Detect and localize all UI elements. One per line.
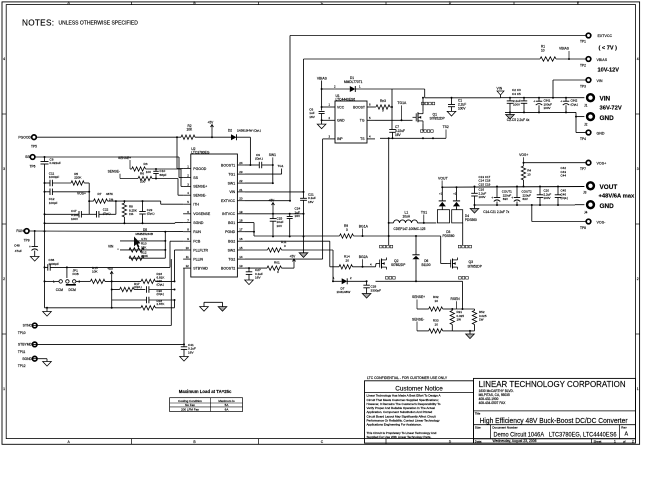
- svg-text:BG1A: BG1A: [359, 224, 369, 228]
- svg-text:487K: 487K: [106, 192, 114, 196]
- svg-text:16V: 16V: [308, 200, 314, 204]
- svg-text:1: 1: [614, 439, 616, 443]
- svg-text:23: 23: [239, 170, 243, 174]
- svg-text:2: 2: [3, 277, 5, 281]
- svg-text:VOUT: VOUT: [600, 184, 618, 191]
- svg-text:VOS+: VOS+: [77, 191, 86, 195]
- svg-text:16V: 16V: [309, 115, 315, 119]
- svg-text:TG: TG: [360, 119, 365, 123]
- svg-text:+5V: +5V: [107, 267, 114, 271]
- svg-text:10: 10: [527, 172, 531, 176]
- svg-text:TP9: TP9: [24, 238, 30, 242]
- svg-text:16V: 16V: [255, 276, 261, 280]
- svg-text:C15 C19: C15 C19: [479, 183, 491, 187]
- svg-text:3300pF: 3300pF: [371, 288, 382, 292]
- svg-text:EXTVCC: EXTVCC: [598, 34, 613, 38]
- svg-text:(Opt.): (Opt.): [147, 212, 155, 216]
- svg-text:100: 100: [146, 170, 151, 174]
- svg-text:Supplied For Use With Linear T: Supplied For Use With Linear Technology …: [367, 435, 432, 439]
- svg-text:No Fan: No Fan: [185, 403, 195, 407]
- svg-text:SS: SS: [25, 155, 30, 159]
- svg-text:1000pF: 1000pF: [49, 175, 60, 179]
- svg-text:Rn3: Rn3: [380, 99, 386, 103]
- svg-text:PGOOD: PGOOD: [18, 135, 31, 139]
- svg-text:1000pF: 1000pF: [49, 262, 60, 266]
- svg-text:SW2: SW2: [228, 248, 236, 252]
- svg-text:15: 15: [239, 246, 243, 250]
- svg-text:12: 12: [186, 264, 190, 268]
- svg-text:100V: 100V: [479, 195, 486, 199]
- svg-text:SENSE-: SENSE-: [193, 194, 207, 198]
- svg-text:20: 20: [239, 197, 243, 201]
- svg-text:TP11: TP11: [18, 350, 26, 354]
- svg-text:VIN: VIN: [229, 190, 235, 194]
- svg-text:+: +: [491, 196, 493, 200]
- svg-text:+48V/6A max: +48V/6A max: [599, 193, 635, 199]
- svg-text:GND: GND: [337, 119, 345, 123]
- svg-text:0: 0: [277, 270, 279, 274]
- svg-text:SYNC: SYNC: [23, 324, 33, 328]
- svg-text:BG1: BG1: [228, 221, 235, 225]
- svg-text:3: 3: [637, 167, 639, 171]
- svg-text:(Opt.): (Opt.): [561, 196, 569, 200]
- svg-text:PDS560: PDS560: [443, 234, 455, 238]
- svg-text:VOS+: VOS+: [519, 153, 528, 157]
- svg-text:VOUT: VOUT: [438, 176, 449, 180]
- svg-text:B1100: B1100: [422, 263, 431, 267]
- svg-text:VCC: VCC: [337, 105, 345, 109]
- svg-text:5A: 5A: [225, 403, 229, 407]
- svg-text:SS: SS: [193, 176, 198, 180]
- svg-text:63V: 63V: [523, 197, 528, 201]
- svg-text:J1: J1: [584, 104, 588, 108]
- svg-text:MMDL770T1: MMDL770T1: [344, 80, 363, 84]
- svg-text:10: 10: [541, 49, 545, 53]
- svg-text:D2: D2: [228, 129, 232, 133]
- svg-text:100V: 100V: [544, 106, 551, 110]
- svg-text:1N4148W: 1N4148W: [337, 290, 351, 294]
- svg-text:VBIAS: VBIAS: [559, 47, 570, 51]
- svg-text:0: 0: [346, 228, 348, 232]
- svg-text:TS: TS: [360, 137, 365, 141]
- svg-text:STBYMD: STBYMD: [193, 266, 208, 270]
- svg-text:36V-72V: 36V-72V: [600, 106, 622, 112]
- svg-text:16V: 16V: [188, 350, 194, 354]
- svg-text:10: 10: [186, 246, 190, 250]
- svg-text:4: 4: [3, 57, 5, 61]
- svg-text:200 LFM Fan: 200 LFM Fan: [181, 408, 199, 412]
- svg-text:Si7852DP: Si7852DP: [468, 264, 482, 268]
- svg-text:of: of: [623, 439, 626, 443]
- svg-text:TG1: TG1: [278, 164, 284, 168]
- svg-text:(Opt.): (Opt.): [157, 292, 165, 296]
- svg-text:68pF: 68pF: [160, 173, 167, 177]
- svg-text:21: 21: [239, 188, 243, 192]
- svg-text:1W: 1W: [479, 318, 484, 322]
- svg-text:GND: GND: [600, 203, 615, 210]
- svg-text:BOOST1: BOOST1: [221, 163, 235, 167]
- svg-text:10K: 10K: [187, 128, 194, 132]
- svg-text:SGND: SGND: [193, 221, 204, 225]
- svg-text:J2: J2: [584, 123, 588, 127]
- svg-text:LINEAR TECHNOLOGY CORPORATION: LINEAR TECHNOLOGY CORPORATION: [479, 379, 626, 389]
- svg-text:Maximum Load at TA=25c: Maximum Load at TA=25c: [179, 389, 232, 394]
- svg-text:INP: INP: [337, 137, 343, 141]
- svg-text:TG2: TG2: [228, 257, 235, 261]
- svg-text:(Opt.): (Opt.): [103, 211, 111, 215]
- svg-text:3: 3: [3, 167, 5, 171]
- svg-text:TG1: TG1: [228, 172, 235, 176]
- svg-text:NOTES:: NOTES:: [22, 19, 54, 28]
- svg-text:20: 20: [346, 258, 350, 262]
- svg-text:C48: C48: [14, 243, 20, 247]
- svg-text:100V: 100V: [71, 217, 78, 221]
- svg-text:MMBZ5240B: MMBZ5240B: [136, 232, 154, 236]
- svg-text:TP6: TP6: [30, 164, 36, 168]
- svg-text:VOS-: VOS-: [597, 221, 607, 225]
- svg-text:+5V: +5V: [290, 255, 297, 259]
- svg-text:PGOOD: PGOOD: [193, 167, 207, 171]
- svg-text:GND: GND: [597, 132, 605, 136]
- svg-text:1: 1: [637, 387, 639, 391]
- svg-text:VOS+: VOS+: [597, 162, 607, 166]
- svg-text:16V: 16V: [395, 133, 402, 137]
- svg-text:(Opt.): (Opt.): [157, 282, 165, 286]
- svg-text:VOSENSE: VOSENSE: [193, 212, 211, 216]
- svg-text:13: 13: [239, 264, 243, 268]
- svg-text:(Opt.): (Opt.): [134, 285, 142, 289]
- svg-text:A: A: [625, 432, 629, 438]
- svg-text:VIN: VIN: [600, 96, 611, 103]
- svg-text:CCM: CCM: [56, 288, 64, 292]
- svg-text:Si7852DP: Si7852DP: [430, 117, 446, 121]
- svg-text:Demo Circuit 1046A LTC3780EG: Demo Circuit 1046A LTC3780EG, LTC4440ES6: [494, 431, 617, 438]
- svg-text:TG1A: TG1A: [397, 101, 407, 105]
- svg-text:TP2: TP2: [580, 64, 586, 68]
- svg-text:+: +: [511, 196, 513, 200]
- svg-text:10K: 10K: [92, 269, 98, 273]
- svg-text:SENSE+: SENSE+: [412, 295, 425, 299]
- svg-text:FCB: FCB: [193, 240, 201, 244]
- svg-text:10V: 10V: [277, 224, 283, 228]
- svg-text:SENSE-: SENSE-: [108, 170, 120, 174]
- svg-text:4: 4: [637, 57, 639, 61]
- svg-text:R3: R3: [144, 162, 148, 166]
- svg-text:LTC3780EG: LTC3780EG: [191, 150, 210, 154]
- svg-text:10V-12V: 10V-12V: [598, 68, 620, 74]
- svg-text:TP7: TP7: [580, 167, 586, 171]
- svg-text:14: 14: [239, 255, 243, 259]
- svg-text:SW1: SW1: [269, 153, 276, 157]
- svg-text:6A: 6A: [225, 408, 229, 412]
- svg-text:Size: Size: [475, 425, 481, 429]
- svg-text:100V: 100V: [458, 107, 466, 111]
- svg-text:C44: C44: [561, 174, 567, 178]
- svg-text:TP1: TP1: [580, 40, 586, 44]
- svg-text:100V: 100V: [544, 196, 551, 200]
- svg-text:1%: 1%: [109, 197, 114, 201]
- svg-text:C2-C5 2.2uF 4x: C2-C5 2.2uF 4x: [507, 118, 530, 122]
- svg-text:R6: R6: [140, 172, 144, 176]
- svg-text:+: +: [29, 245, 31, 249]
- svg-text:Sheet: Sheet: [594, 439, 602, 443]
- svg-text:BOOST2: BOOST2: [221, 266, 235, 270]
- svg-text:1%: 1%: [129, 212, 134, 216]
- svg-text:BG2: BG2: [228, 240, 235, 244]
- svg-text:17: 17: [239, 228, 243, 232]
- svg-text:1: 1: [3, 387, 5, 391]
- svg-text:TS2: TS2: [443, 125, 449, 129]
- svg-text:100: 100: [140, 179, 145, 183]
- svg-text:+5V: +5V: [208, 120, 215, 124]
- svg-text:1N5819HW (Opt.): 1N5819HW (Opt.): [237, 129, 261, 133]
- svg-text:Rev: Rev: [621, 425, 627, 429]
- svg-text:LTC4440ES6: LTC4440ES6: [336, 98, 356, 102]
- svg-text:BOOST: BOOST: [353, 105, 365, 109]
- svg-text:J4: J4: [584, 211, 588, 215]
- svg-text:LTC CONFIDENTIAL - FOR CUSTOME: LTC CONFIDENTIAL - FOR CUSTOMER USE ONLY: [367, 376, 448, 380]
- svg-text:SENSE+: SENSE+: [193, 185, 207, 189]
- svg-text:100V: 100V: [513, 103, 520, 107]
- svg-text:220K: 220K: [74, 175, 82, 179]
- svg-text:TP3: TP3: [580, 85, 586, 89]
- svg-text:RUN: RUN: [193, 230, 201, 234]
- svg-text:63V: 63V: [503, 197, 508, 201]
- svg-text:( < 7V ): ( < 7V ): [599, 45, 618, 51]
- svg-text:16: 16: [239, 237, 243, 241]
- svg-text:TP10: TP10: [18, 331, 26, 335]
- svg-text:Applications Engineering For A: Applications Engineering For Assistance.: [367, 423, 422, 427]
- svg-text:PGND: PGND: [225, 230, 236, 234]
- svg-text:18: 18: [239, 219, 243, 223]
- svg-text:High Efficiency 48V Buck-Boost: High Efficiency 48V Buck-Boost DC/DC Con…: [480, 416, 629, 425]
- svg-text:(Opt.): (Opt.): [571, 102, 579, 106]
- svg-text:10uH: 10uH: [403, 215, 411, 219]
- svg-text:RSEN: RSEN: [451, 297, 461, 301]
- svg-text:EXTVCC: EXTVCC: [221, 199, 236, 203]
- svg-text:0: 0: [382, 108, 384, 112]
- svg-text:PLLIN: PLLIN: [193, 257, 203, 261]
- svg-text:2: 2: [632, 439, 634, 443]
- svg-text:10: 10: [435, 322, 439, 326]
- svg-text:+: +: [533, 100, 535, 104]
- svg-text:4.7V: 4.7V: [141, 237, 147, 241]
- svg-text:SENSE+: SENSE+: [118, 156, 131, 160]
- svg-text:VIN: VIN: [597, 79, 603, 83]
- svg-text:J3: J3: [583, 191, 587, 195]
- svg-text:GND: GND: [600, 115, 615, 122]
- svg-text:Document Number: Document Number: [492, 425, 517, 429]
- svg-text:RUN: RUN: [16, 229, 24, 233]
- svg-text:CDEP147-100MC-125: CDEP147-100MC-125: [394, 227, 426, 231]
- svg-text:408-434-0507 FAX: 408-434-0507 FAX: [479, 401, 507, 405]
- svg-text:47uF: 47uF: [15, 249, 22, 253]
- svg-text:TP8: TP8: [580, 226, 586, 230]
- svg-text:STBYMD: STBYMD: [18, 343, 33, 347]
- svg-text:VBIAS: VBIAS: [597, 58, 608, 62]
- svg-text:VIN: VIN: [108, 245, 114, 249]
- svg-text:SW1: SW1: [228, 181, 236, 185]
- svg-text:19: 19: [239, 210, 243, 214]
- svg-text:PLLFLTR: PLLFLTR: [193, 248, 208, 252]
- svg-text:SGND: SGND: [22, 357, 32, 361]
- svg-text:1W: 1W: [457, 318, 462, 322]
- svg-text:11: 11: [186, 255, 189, 259]
- svg-text:2: 2: [637, 277, 639, 281]
- svg-text:TP5: TP5: [31, 145, 37, 149]
- svg-text:+: +: [560, 100, 562, 104]
- svg-text:Title: Title: [475, 411, 481, 415]
- svg-text:22: 22: [239, 179, 243, 183]
- svg-text:ITH: ITH: [193, 203, 199, 207]
- svg-text:(Opt.): (Opt.): [255, 157, 263, 161]
- svg-text:R7: R7: [98, 192, 102, 196]
- svg-text:TS1: TS1: [421, 210, 427, 214]
- svg-text:16V: 16V: [295, 214, 301, 218]
- svg-text:Customer Notice: Customer Notice: [395, 385, 443, 392]
- svg-text:INTVCC: INTVCC: [222, 212, 236, 216]
- svg-text:DCM: DCM: [69, 288, 77, 292]
- svg-text:Wednesday, August 23, 2006: Wednesday, August 23, 2006: [493, 439, 537, 443]
- svg-text:0: 0: [284, 244, 286, 248]
- svg-text:Si7852DP: Si7852DP: [391, 263, 405, 267]
- svg-text:0.022uF: 0.022uF: [50, 161, 61, 165]
- svg-text:VIN: VIN: [497, 87, 503, 91]
- svg-text:TP12: TP12: [18, 364, 26, 368]
- svg-text:SENSE-: SENSE-: [412, 317, 424, 321]
- svg-text:BG2A: BG2A: [359, 255, 369, 259]
- svg-text:2.67K: 2.67K: [157, 302, 165, 306]
- svg-text:R01: R01: [274, 261, 280, 265]
- svg-text:C4 C5: C4 C5: [512, 92, 521, 96]
- svg-text:24: 24: [239, 161, 243, 165]
- svg-text:UNLESS OTHERWISE SPECIFIED: UNLESS OTHERWISE SPECIFIED: [59, 21, 139, 27]
- svg-text:10: 10: [435, 299, 439, 303]
- svg-text:C14-C21 2.2uF 7x: C14-C21 2.2uF 7x: [483, 210, 509, 214]
- svg-text:Date:: Date:: [475, 439, 482, 443]
- svg-text:TP4: TP4: [580, 137, 586, 141]
- svg-text:+5V: +5V: [269, 198, 276, 202]
- svg-text:100pF: 100pF: [49, 201, 58, 205]
- svg-text:VBIAS: VBIAS: [317, 77, 328, 81]
- svg-text:FCB: FCB: [73, 272, 79, 276]
- svg-text:PDS560: PDS560: [465, 218, 477, 222]
